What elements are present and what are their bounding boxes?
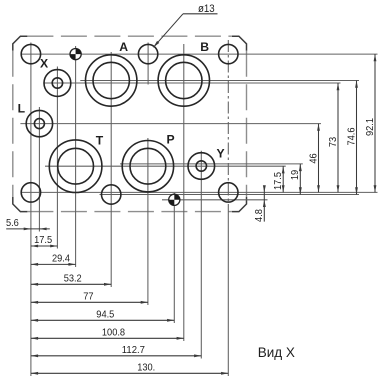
svg-text:17.5: 17.5 — [273, 172, 284, 190]
top locating pin — [70, 49, 81, 60]
svg-text:T: T — [96, 133, 104, 147]
svg-text:Вид Х: Вид Х — [258, 345, 295, 360]
svg-text:X: X — [40, 57, 49, 71]
extension line small hole row (73) — [44, 82, 341, 84]
svg-text:92.1: 92.1 — [365, 118, 376, 136]
bottom middle bolt hole — [102, 185, 121, 204]
plate edge bottom (dashed) — [27, 211, 232, 213]
leader line dia13 — [153, 3, 217, 47]
label P — [167, 133, 175, 147]
dimension 100.8 — [31, 327, 184, 339]
label T — [96, 133, 104, 147]
svg-text:112.7: 112.7 — [122, 345, 145, 356]
svg-text:5.6: 5.6 — [6, 218, 19, 229]
label X — [40, 57, 49, 71]
svg-text:ø13: ø13 — [198, 3, 215, 15]
centerline column P — [147, 138, 149, 305]
dimension 46 — [308, 124, 320, 193]
extension line column Y — [200, 151, 202, 359]
port B hole — [158, 55, 209, 106]
svg-text:73: 73 — [328, 137, 339, 148]
svg-text:53.2: 53.2 — [64, 273, 82, 284]
plate outline corner top-right — [232, 36, 247, 51]
port X hole — [21, 44, 40, 63]
svg-text:100.8: 100.8 — [102, 327, 125, 338]
dimension 19 — [290, 164, 302, 195]
centerline column B — [183, 44, 185, 341]
bottom right bolt hole — [219, 183, 238, 202]
svg-text:P: P — [167, 133, 175, 147]
bottom left bolt hole — [21, 183, 40, 202]
extension column right bolts to 130 dim — [227, 212, 229, 376]
centerline row L (46) — [20, 123, 321, 125]
port Y hole — [188, 153, 215, 180]
plate edge right (dashed) — [246, 51, 248, 197]
svg-text:29.4: 29.4 — [52, 254, 70, 265]
port T hole — [49, 140, 102, 193]
svg-text:Y: Y — [217, 146, 225, 160]
extension line bottom pin row (4.8) — [162, 199, 268, 201]
svg-text:B: B — [200, 40, 209, 54]
centerline row T-P-Y (17.5) — [45, 165, 286, 167]
extension line column bottom pin — [173, 193, 175, 323]
dimension 73 — [328, 83, 340, 192]
centerline column top middle bolt — [147, 43, 149, 85]
dimension 94.5 — [31, 309, 174, 321]
svg-text:46: 46 — [308, 153, 319, 164]
view title — [258, 345, 295, 360]
dimension 5.6 — [6, 218, 50, 230]
dimension 77 — [31, 291, 148, 303]
dimension 4.8 — [254, 185, 266, 222]
extension line A-B row (74.6) — [80, 80, 359, 82]
dimension 112.7 — [31, 345, 201, 357]
port A hole — [86, 55, 137, 106]
label Y — [217, 146, 225, 160]
svg-text:19: 19 — [290, 170, 301, 181]
dimension 29.4 — [31, 254, 76, 266]
dimension 130 — [31, 362, 228, 374]
plate edge top (dashed) — [27, 35, 232, 37]
svg-text:94.5: 94.5 — [96, 309, 114, 320]
svg-text:74.6: 74.6 — [346, 127, 357, 145]
plate outline corner bottom-left — [13, 197, 28, 212]
svg-text:4.8: 4.8 — [254, 209, 265, 222]
dimension 17.5 right — [273, 166, 285, 192]
extension line column L — [38, 107, 40, 232]
label L — [18, 102, 26, 116]
label B — [200, 40, 209, 54]
centerline column T / top pin — [75, 46, 77, 267]
dimension 74.6 — [346, 81, 358, 195]
dimension 92.1 — [365, 54, 377, 192]
port L hole — [26, 110, 52, 136]
centerline column right bolts (dash-dot) — [227, 40, 229, 212]
top middle bolt hole — [138, 44, 157, 63]
extension line column small hole — [56, 67, 58, 249]
svg-text:77: 77 — [83, 291, 94, 302]
port P hole — [122, 141, 173, 192]
label A — [119, 40, 128, 54]
extension line 19 row — [120, 163, 303, 165]
dimension 53.2 — [31, 273, 111, 285]
centerline row X and top bolts (y=54) — [21, 53, 378, 55]
centerline row bottom bolts (baseline) — [21, 191, 378, 193]
plate outline corner bottom-right — [232, 197, 247, 212]
svg-text:L: L — [18, 102, 26, 116]
extension line middle bolt row — [100, 194, 360, 196]
top right bolt hole — [219, 44, 238, 63]
plate edge left (dashed) — [12, 51, 14, 197]
svg-text:130.: 130. — [137, 362, 155, 373]
svg-text:A: A — [119, 40, 128, 54]
centerline column left bolts / X — [30, 43, 32, 377]
svg-text:17.5: 17.5 — [34, 235, 52, 246]
small hole below X — [44, 70, 71, 97]
centerline column A / middle bolt — [110, 52, 112, 287]
dimension 17.5 bottom — [31, 235, 58, 247]
bottom locating pin — [169, 194, 180, 205]
plate outline corner top-left — [13, 36, 28, 51]
